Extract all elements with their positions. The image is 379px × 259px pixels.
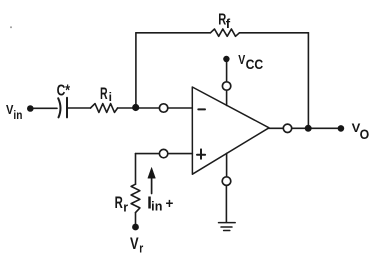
wire: feedback right vertical down to output node — [307, 33, 309, 128]
wire: resistor Rr to Vr dot — [135, 213, 137, 225]
wire: feedback top left segment — [136, 32, 211, 34]
svg-text:r: r — [139, 240, 143, 255]
wire: Vin dot to capacitor — [31, 107, 57, 109]
node A junction dot (inverting input node) — [132, 104, 139, 111]
wire: output circle to Vo dot — [292, 127, 341, 129]
wire: plus input from op-amp to circle — [168, 153, 193, 155]
node: Vcc terminal dot — [223, 56, 229, 62]
wire: resistor Ri to node A — [118, 107, 160, 109]
svg-text:in: in — [151, 200, 162, 214]
wire: feedback top right segment — [239, 32, 308, 34]
node: Vr terminal dot — [132, 224, 139, 231]
pin circle: output — [283, 124, 291, 132]
ground — [219, 223, 236, 231]
current arrow Iin+ shaft — [151, 177, 153, 194]
wire: corner down to resistor Rr — [135, 154, 137, 185]
svg-text:+: + — [166, 196, 174, 211]
svg-text:R: R — [100, 85, 108, 103]
op-amp U1 triangle — [192, 87, 269, 174]
node: output junction dot — [305, 125, 312, 132]
op-amp plus sign — [197, 149, 205, 158]
wire: Vcc dot down to circle — [226, 62, 228, 82]
svg-text:O: O — [360, 126, 370, 142]
pin circle: non-inverting input — [159, 149, 167, 157]
pin circle: Vee/ground pin — [222, 177, 231, 186]
node: Vo terminal dot — [338, 125, 345, 132]
resistor Rr — [131, 184, 140, 212]
resistor Ri — [91, 104, 118, 113]
svg-text:CC: CC — [246, 57, 264, 72]
svg-text:f: f — [226, 16, 231, 31]
wire: plus circle to corner — [136, 153, 160, 155]
wire: Vcc circle to op-amp top edge — [226, 90, 228, 105]
speck artifact — [10, 26, 12, 28]
capacitor C* straight plate — [66, 98, 68, 118]
op-amp minus sign — [198, 108, 205, 110]
wire: node A right of circle to op-amp minus input — [168, 107, 193, 109]
current arrow Iin+ head — [148, 167, 156, 178]
wire: feedback left vertical — [135, 33, 137, 105]
wire: op-amp output to circle — [268, 127, 283, 129]
node: Vin terminal dot — [27, 105, 34, 112]
resistor Rf — [210, 29, 239, 36]
svg-text:C*: C* — [57, 83, 71, 100]
pin circle: inverting input — [159, 104, 167, 112]
svg-text:V: V — [130, 235, 139, 253]
pin circle: Vcc pin — [222, 82, 230, 90]
svg-text:r: r — [123, 200, 128, 215]
capacitor C* curved plate — [58, 98, 60, 117]
svg-text:R: R — [115, 193, 123, 212]
svg-text:in: in — [13, 108, 22, 122]
wire: circle to ground — [225, 185, 227, 222]
wire: op-amp bottom edge down to circle — [226, 153, 228, 177]
svg-text:i: i — [109, 90, 112, 104]
wire: capacitor to resistor Ri — [67, 107, 91, 109]
